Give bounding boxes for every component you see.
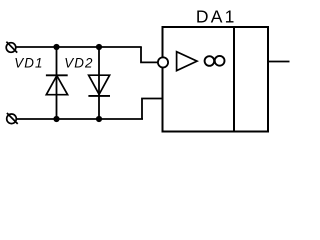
svg-text:VD2: VD2 bbox=[64, 56, 93, 71]
node junction bottom VD1 bbox=[53, 116, 59, 122]
svg-text:VD1: VD1 bbox=[14, 55, 43, 70]
wire output bbox=[268, 61, 290, 63]
wire top input step to inverting input bbox=[141, 47, 158, 62]
infinity gain symbol bbox=[205, 56, 225, 66]
wire bottom rail bbox=[16, 118, 143, 120]
wire diode VD1 branch bbox=[56, 47, 58, 119]
diode VD1 (cathode up) bbox=[46, 75, 68, 94]
op-amp DA1 inner divider bbox=[233, 27, 235, 132]
wire top rail bbox=[16, 46, 142, 48]
node junction bottom VD2 bbox=[96, 116, 102, 122]
terminal X2 (bottom input) bbox=[7, 113, 18, 124]
wire bottom input step to non-inverting input bbox=[142, 99, 163, 120]
node junction top VD1 bbox=[53, 44, 59, 50]
inverting input bubble bbox=[158, 57, 168, 67]
terminal X1 (top input) bbox=[6, 42, 17, 53]
amplifier triangle symbol bbox=[177, 52, 197, 71]
node junction top VD2 bbox=[96, 44, 102, 50]
op-amp DA1 body bbox=[163, 27, 269, 132]
diode VD2 (cathode down) bbox=[88, 75, 110, 96]
wire diode VD2 branch bbox=[98, 47, 100, 119]
svg-text:DA1: DA1 bbox=[196, 7, 237, 27]
